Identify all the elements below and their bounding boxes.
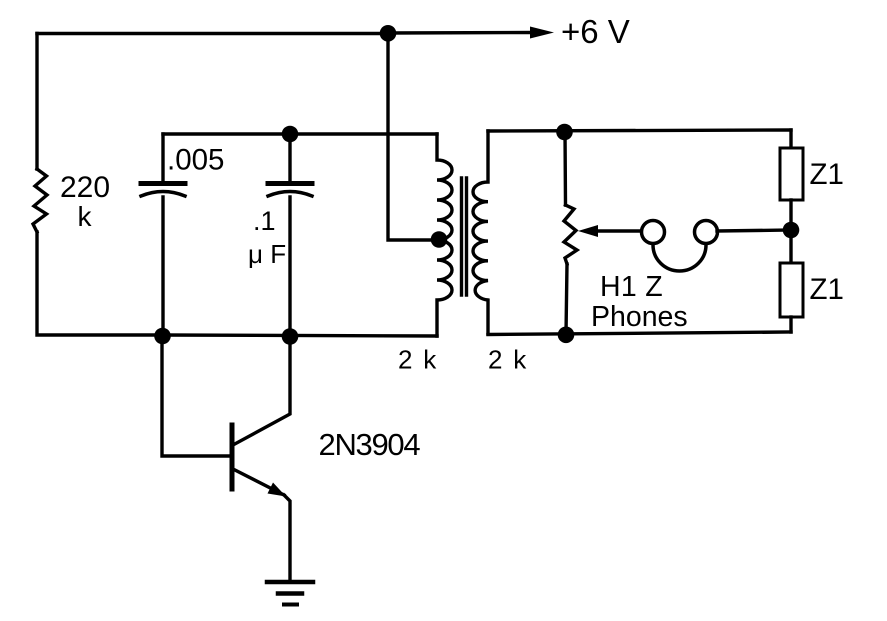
node junction dot top rail (supply node): [380, 25, 397, 42]
transistor Q1 emitter arrowhead: [268, 483, 287, 497]
node junction dot bottom-left (base node): [154, 328, 171, 345]
wire base node dropper: [162, 336, 230, 456]
svg-text:Z1: Z1: [810, 273, 844, 306]
node junction dot bottom right rail: [558, 327, 575, 344]
headphone left earpiece circle: [642, 221, 665, 244]
capacitor C1 .005 top lead: [161, 134, 164, 181]
tapped resistor bottom lead: [566, 264, 567, 334]
svg-text:H1 Z: H1 Z: [600, 271, 663, 303]
svg-text:2 k: 2 k: [398, 345, 438, 375]
headphone right earpiece circle: [695, 221, 718, 244]
impedance Z1 lower box: [780, 263, 803, 317]
node junction dot on mid rail at C2 top: [282, 126, 299, 143]
wire headphone to Z1 divider node: [717, 230, 791, 231]
wire supply dropper to transformer center tap: [388, 33, 438, 240]
capacitor C2 .1uF top lead: [288, 134, 291, 181]
tapped resistor (phones matching) top lead: [563, 131, 567, 205]
svg-text:Phones: Phones: [591, 301, 688, 333]
transistor Q1 collector lead: [233, 336, 290, 445]
node junction dot top right rail: [556, 124, 573, 141]
tap arrowhead: [578, 225, 598, 237]
svg-text:k: k: [78, 201, 93, 232]
node junction dot divider: [783, 222, 800, 239]
transformer T1 primary winding: [437, 134, 452, 336]
transistor Q1 emitter lead: [233, 469, 284, 495]
transformer T1 secondary winding: [473, 131, 488, 334]
capacitor C2 .1uF bottom lead: [288, 197, 291, 336]
svg-text:2 k: 2 k: [488, 345, 528, 375]
capacitor C1 .005 plates: [141, 181, 185, 186]
svg-text:.1: .1: [253, 206, 276, 236]
transformer T1 core lines: [460, 178, 463, 295]
ground symbol: [267, 580, 313, 585]
svg-text:.005: .005: [167, 144, 224, 177]
transistor Q1 base bar: [230, 425, 235, 489]
wire Z1 lower to bottom rail: [789, 317, 792, 332]
svg-text:2N3904: 2N3904: [319, 427, 421, 462]
wire +6V arrowhead: [530, 27, 554, 39]
svg-text:Z1: Z1: [810, 158, 844, 191]
node junction dot center tap: [431, 231, 448, 248]
wire top right rail: [488, 130, 791, 131]
wire right side top segment: [789, 130, 792, 148]
capacitor C2 .1uF plates: [268, 181, 312, 186]
svg-text:μ F: μ F: [248, 239, 286, 269]
wire top rail from left corner to +6V arrow: [37, 32, 388, 35]
wire emitter to ground: [284, 495, 290, 581]
wire bottom right rail: [488, 332, 791, 335]
wire R1 bottom to bottom rail: [37, 232, 162, 335]
headphone band arc: [653, 245, 706, 271]
resistor R1 220k zigzag: [33, 169, 47, 232]
wire bottom rail left section: [162, 335, 437, 336]
svg-text:+6 V: +6 V: [561, 13, 630, 50]
svg-text:220: 220: [60, 171, 110, 204]
node junction dot bottom-mid (collector node): [282, 328, 299, 345]
capacitor C1 .005 bottom lead: [161, 197, 164, 335]
wire tap arrow shaft from headphone: [596, 229, 641, 232]
wire mid rail y=134 from C1 top to transformer primary: [163, 132, 437, 135]
wire left vertical from top rail to resistor R1: [35, 34, 38, 170]
wire +6V arrow shaft: [388, 31, 533, 35]
impedance Z1 upper box: [780, 148, 803, 200]
wire Z1 upper to divider node: [789, 200, 792, 263]
tapped resistor zigzag: [564, 205, 577, 264]
